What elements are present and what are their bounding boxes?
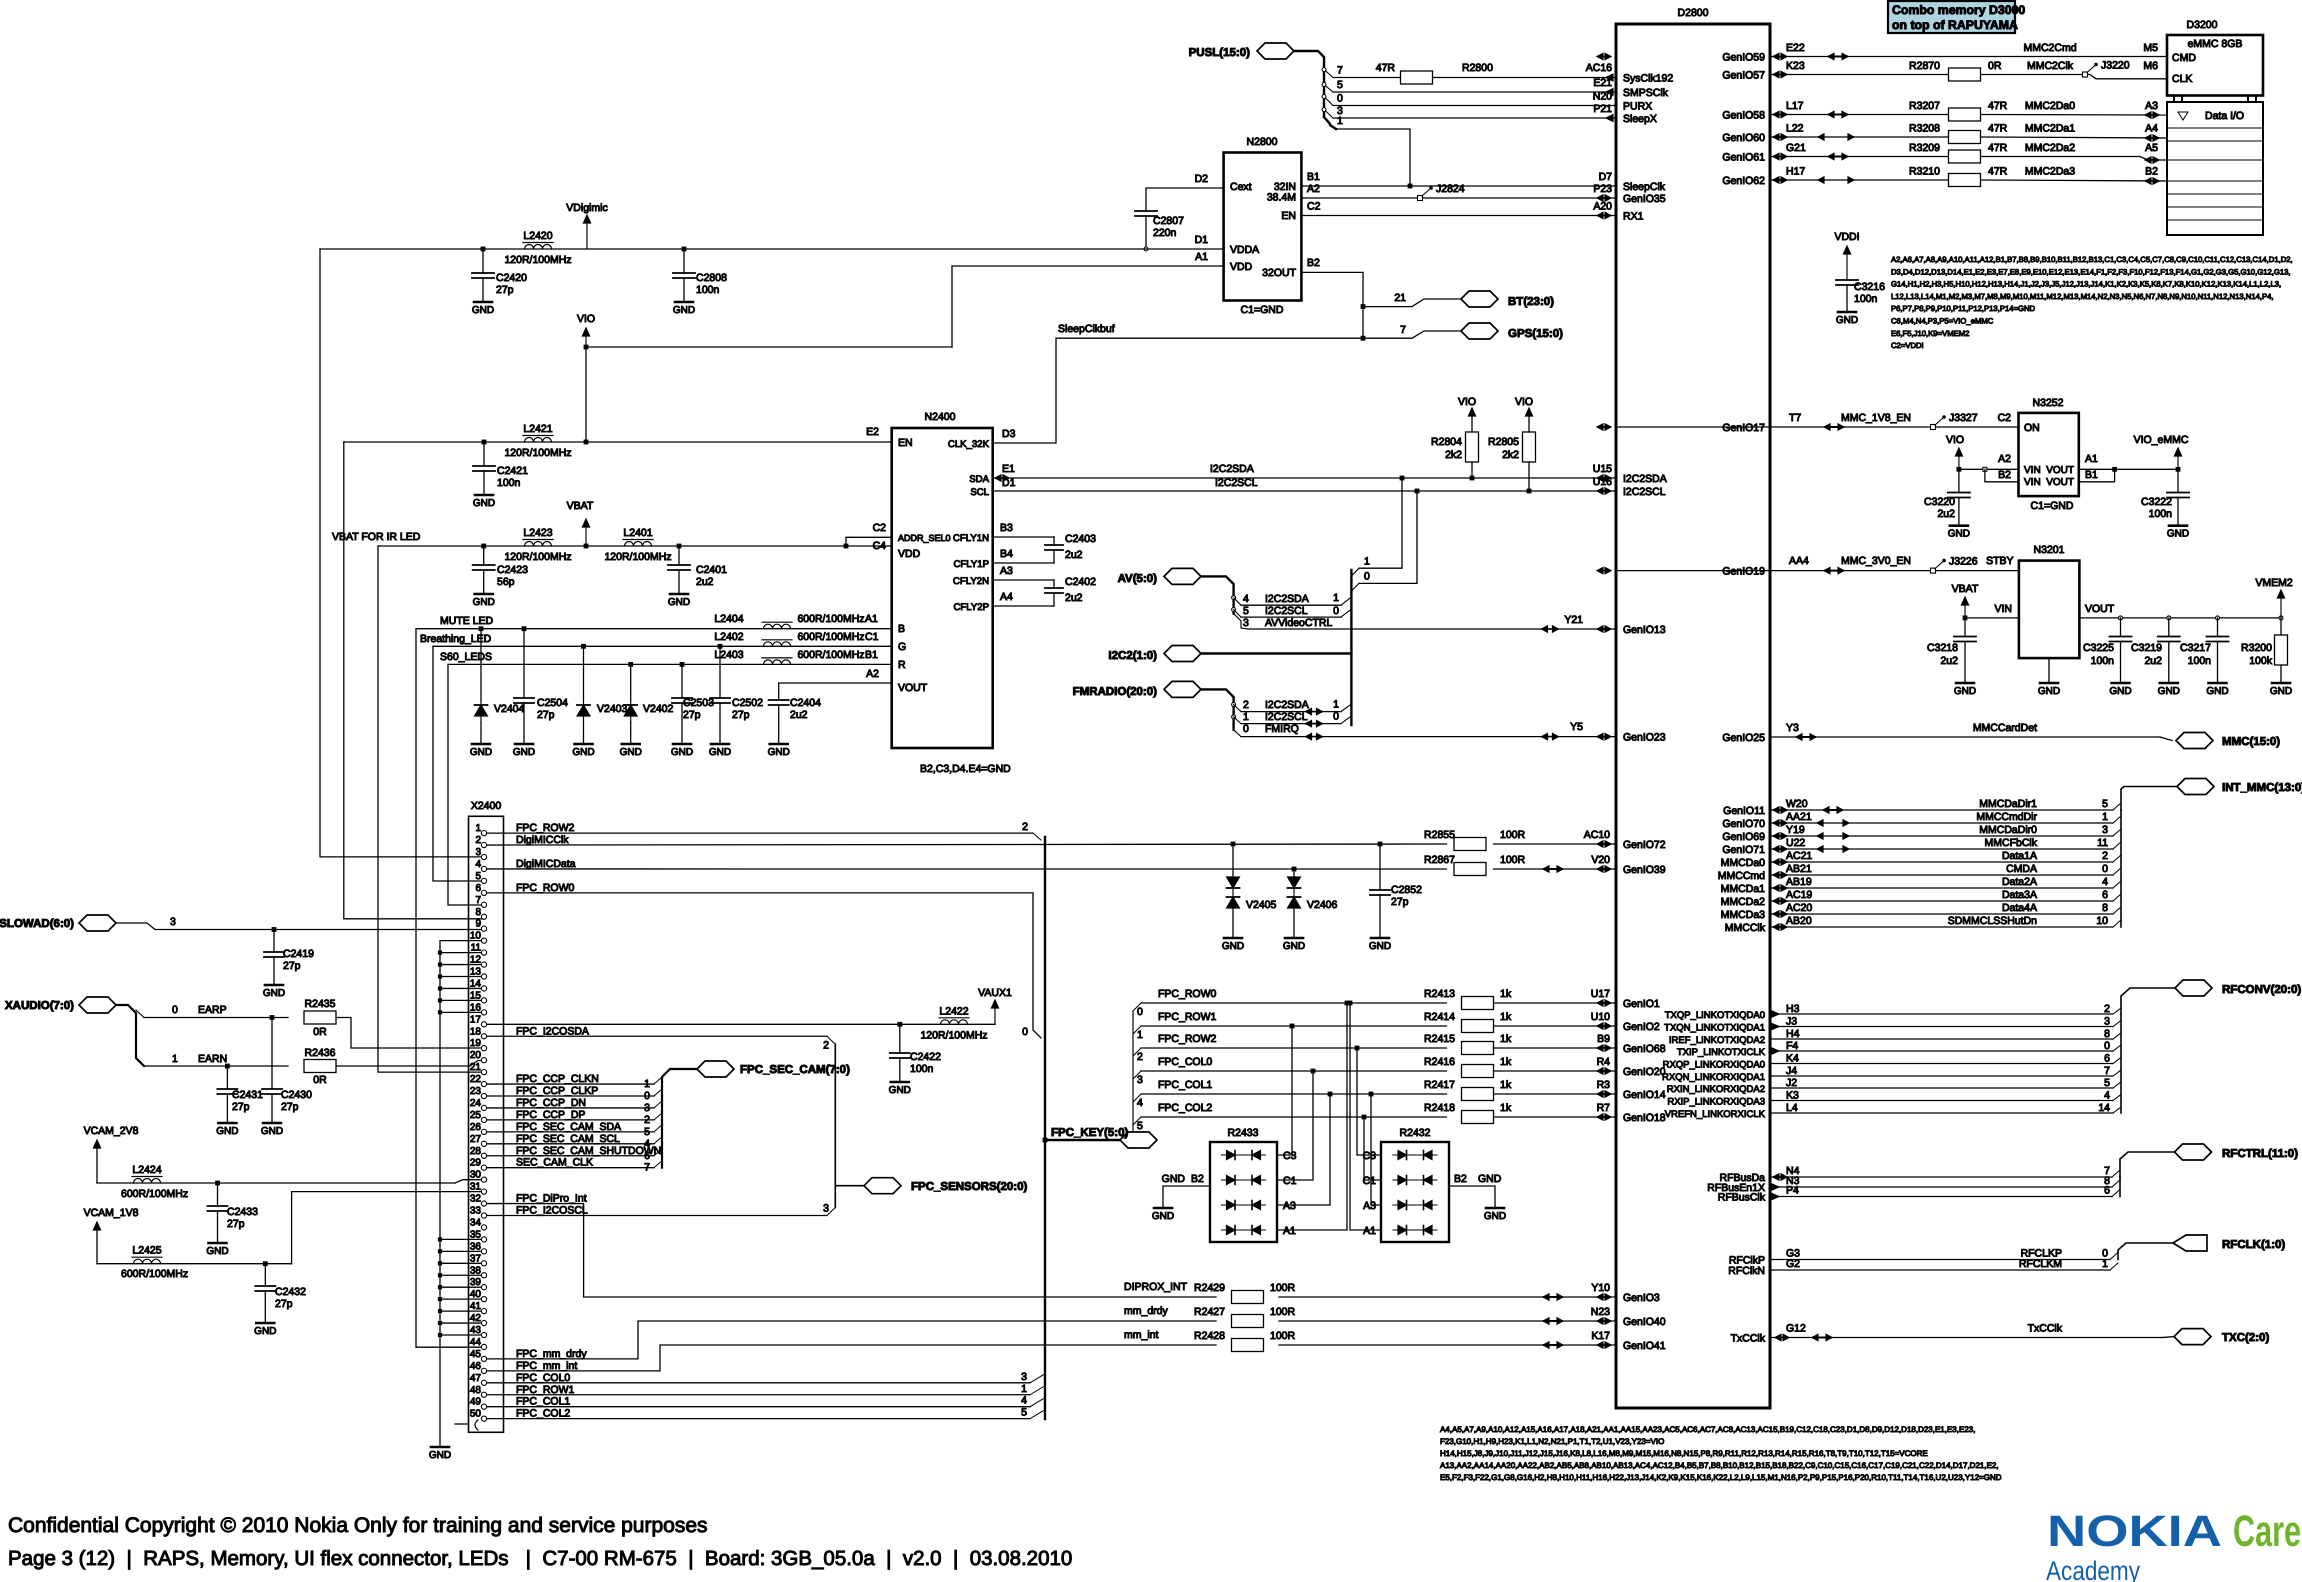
svg-text:D2: D2 [1195,173,1209,185]
svg-text:2: 2 [1022,821,1028,833]
svg-text:B2: B2 [1998,469,2011,481]
wire R2432 A1 to FPC_ROW0 [1350,1003,1381,1230]
svg-text:C3: C3 [1283,1150,1297,1162]
svg-text:GND: GND [768,747,790,758]
wire DigiMICData pin4 row [484,868,1447,870]
svg-text:32OUT: 32OUT [1262,267,1296,279]
svg-text:K17: K17 [1591,1330,1610,1342]
svg-text:VDDI: VDDI [1834,231,1859,243]
svg-text:2u2: 2u2 [1065,549,1083,561]
wire FPC_COL0 to R4 [1133,1071,1141,1079]
IC N3252 regulator [2019,413,2079,496]
svg-text:VIO: VIO [577,313,595,325]
svg-text:GenIO60: GenIO60 [1722,132,1765,144]
svg-text:1k: 1k [1500,1011,1512,1023]
connector X2400 [469,816,504,1432]
svg-text:on top of RAPUYAMA: on top of RAPUYAMA [1892,18,2018,32]
wire R2433 C3 to FPC_ROW1 [1277,1026,1292,1155]
wire I2C2 bus spine [1201,652,1351,654]
svg-text:ADDR_SEL0: ADDR_SEL0 [898,533,951,543]
bus tap AV5 I2C2SCL [1232,608,1236,612]
resistor R3200 100k [2280,618,2282,635]
wire MMC2Clk GenIO57 [1770,74,1948,76]
X2400 pin numbers and labels [470,822,661,1420]
svg-text:120R/100MHz: 120R/100MHz [920,1029,987,1041]
svg-text:MMCCmdDir: MMCCmdDir [1976,811,2037,823]
svg-text:38.4M: 38.4M [1267,192,1296,204]
svg-text:14: 14 [2098,1102,2110,1114]
svg-text:N23: N23 [1591,1306,1610,1318]
svg-text:U10: U10 [1591,1011,1610,1023]
svg-text:MMCDaDir0: MMCDaDir0 [1979,824,2037,836]
bus port INT_MMC(13:0) [2177,779,2214,795]
bus port TXC(2:0) [2174,1329,2211,1345]
svg-text:27p: 27p [283,960,301,972]
IC N2800 (32k clock) [1224,153,1302,301]
svg-text:FMIRQ: FMIRQ [1265,723,1299,735]
wire FPC_SENSORS tail [835,1185,864,1187]
svg-text:MMC2Da3: MMC2Da3 [2025,166,2075,178]
svg-text:MMC_1V8_EN: MMC_1V8_EN [1841,412,1911,424]
svg-text:R2805: R2805 [1488,436,1519,448]
svg-text:R2427: R2427 [1194,1306,1225,1318]
svg-text:Confidential Copyright © 2010: Confidential Copyright © 2010 Nokia Only… [8,1514,708,1537]
svg-text:R3200: R3200 [2241,642,2272,654]
svg-text:3: 3 [1137,1074,1143,1086]
resistor R2804 2k2 [1466,432,1479,462]
ground C3217 [2209,682,2227,685]
svg-text:GND: GND [1369,941,1391,952]
svg-text:FPC_SENSORS(20:0): FPC_SENSORS(20:0) [911,1181,1027,1193]
svg-text:GND: GND [206,1246,228,1257]
svg-text:AB21: AB21 [1786,863,1812,875]
svg-text:C3222: C3222 [2141,496,2172,508]
resistor R3208 47R [1949,131,1981,144]
svg-text:6: 6 [475,883,481,894]
svg-text:E2: E2 [866,426,879,438]
svg-text:5: 5 [1137,1120,1143,1132]
wire CFLY1P B4 [993,562,1054,564]
wire pins 47-50 to FPC_KEY [484,1382,1030,1384]
svg-text:I2C2SCL: I2C2SCL [1265,605,1308,617]
svg-text:GenIO19: GenIO19 [1722,566,1765,578]
svg-text:V2404: V2404 [494,703,525,715]
wire MMC2Cmd GenIO59 [1770,56,2167,58]
svg-text:0: 0 [1022,1026,1028,1038]
svg-text:A4: A4 [2145,123,2158,135]
wire AV bus spine [1201,576,1234,613]
svg-text:GND: GND [470,747,492,758]
diode V2404 [479,626,484,631]
bus port AV(5:0) [1164,568,1201,584]
bus port BT(23:0) [1363,299,1461,307]
svg-text:GenIO23: GenIO23 [1623,732,1666,744]
svg-text:MMCDa0: MMCDa0 [1721,857,1765,869]
svg-text:H3: H3 [1786,1003,1800,1015]
svg-text:E21: E21 [1593,77,1612,89]
wire RFCONV bit 2 pin H3 [1770,1013,2113,1015]
wire VBAT FOR IR LED rail [378,545,892,547]
svg-text:Data2A: Data2A [2002,876,2037,888]
svg-text:C2421: C2421 [497,465,528,477]
svg-text:A13,AA2,AA14,AA20,AA22,AB2,AB5: A13,AA2,AA14,AA20,AA22,AB2,AB5,AB8,AB10,… [1440,1461,1999,1470]
svg-text:J3: J3 [1786,1016,1797,1028]
svg-text:29: 29 [470,1158,482,1169]
svg-text:MMC2Da1: MMC2Da1 [2025,123,2075,135]
svg-text:R2415: R2415 [1424,1033,1455,1045]
svg-text:F23,G10,H1,H9,H23,K1,L1,N2,N21: F23,G10,H1,H9,H23,K1,L1,N2,N21,P1,T1,T2,… [1440,1437,1664,1446]
X2400 shield bracket [455,1423,467,1425]
svg-text:R2435: R2435 [305,998,336,1010]
svg-text:TXC(2:0): TXC(2:0) [2222,1332,2269,1344]
svg-text:U17: U17 [1591,988,1610,1000]
svg-text:G21: G21 [1786,142,1806,154]
svg-text:C3219: C3219 [2131,642,2162,654]
svg-text:PURX: PURX [1623,101,1652,113]
text D2800 pin assignment list [1440,1425,2002,1482]
svg-text:A3: A3 [1363,1200,1376,1212]
svg-text:GenIO70: GenIO70 [1722,818,1765,830]
svg-text:47R: 47R [1376,62,1396,74]
svg-text:AB20: AB20 [1786,915,1812,927]
svg-text:GenIO2: GenIO2 [1623,1021,1660,1033]
svg-text:AC10: AC10 [1584,829,1610,841]
svg-text:A20: A20 [1593,201,1612,213]
svg-text:C2807: C2807 [1153,215,1184,227]
ground C2852 [1371,937,1389,940]
power VIO R2805 [1528,415,1530,432]
svg-text:FPC_COL2: FPC_COL2 [516,1408,570,1420]
svg-text:FPC_COL0: FPC_COL0 [516,1372,570,1384]
wire sec_cam pin24 [484,1107,654,1109]
wire MMCCmdDir AA21 [1770,822,2113,824]
capacitor C2402 2u2 [1053,580,1055,588]
svg-text:D1: D1 [1002,477,1016,489]
svg-text:MMCDaDir1: MMCDaDir1 [1979,798,2037,810]
svg-text:GND: GND [2158,686,2180,697]
svg-text:R2804: R2804 [1431,436,1462,448]
wire MMCFbClk U22 [1770,848,2113,850]
svg-text:5: 5 [1021,1407,1027,1419]
svg-text:R2432: R2432 [1400,1127,1431,1139]
svg-text:4: 4 [1137,1097,1143,1109]
svg-text:DigiMICClk: DigiMICClk [516,834,569,846]
svg-text:1k: 1k [1500,1033,1512,1045]
svg-text:0: 0 [1137,1006,1143,1018]
svg-text:GND: GND [2038,686,2060,697]
svg-text:VIN: VIN [1994,603,2012,615]
svg-text:120R/100MHz: 120R/100MHz [604,551,671,563]
svg-text:GenIO39: GenIO39 [1623,864,1666,876]
power VIO N3252 [1958,455,1960,469]
svg-text:2k2: 2k2 [1502,449,1519,461]
ground C2401 [670,593,688,596]
svg-text:EN: EN [1281,210,1296,222]
svg-text:FPC_CCP_DP: FPC_CCP_DP [516,1109,585,1121]
svg-text:C2403: C2403 [1065,533,1096,545]
svg-text:32: 32 [470,1194,482,1205]
svg-text:1k: 1k [1500,988,1512,1000]
ground X2400 [431,1446,449,1449]
svg-text:1: 1 [2102,1258,2108,1270]
svg-text:D7: D7 [1599,171,1613,183]
svg-text:C2502: C2502 [732,697,763,709]
svg-text:48: 48 [470,1385,482,1396]
inductor L2403 [762,657,792,659]
svg-text:27p: 27p [281,1101,299,1113]
wire CFLY1N B3 [993,536,1054,538]
svg-text:VBAT: VBAT [567,500,594,512]
svg-text:0: 0 [172,1004,178,1016]
svg-text:AV(5:0): AV(5:0) [1118,573,1158,585]
capacitor C2502 27p [718,644,723,649]
svg-text:C2423: C2423 [497,564,528,576]
svg-text:B1: B1 [1307,171,1320,183]
svg-text:RFBusClk: RFBusClk [1718,1192,1766,1204]
ground V2402 [622,743,640,746]
svg-text:3: 3 [170,916,176,928]
svg-text:26: 26 [470,1122,482,1133]
svg-text:2: 2 [823,1039,829,1051]
wire MMCCardDet GenIO25 [1770,736,2160,738]
wire MMC2Da1 L22-A4 [1770,136,1948,138]
svg-text:N20: N20 [1593,91,1612,103]
svg-text:R3208: R3208 [1909,123,1940,135]
IC N2400 (LED driver) [892,428,993,748]
svg-text:V20: V20 [1591,854,1610,866]
svg-text:600R/100MHz: 600R/100MHz [797,631,864,643]
wire RFCONV bit 8 pin H4 [1770,1038,2113,1040]
resistor R2855 100R [1454,838,1486,851]
bus port FPC_SENSORS(20:0) [864,1178,901,1194]
svg-text:Academy: Academy [2046,1556,2140,1582]
svg-text:H4: H4 [1786,1028,1800,1040]
svg-text:C2422: C2422 [910,1051,941,1063]
wire FPC_KEY fan spine [1132,1011,1134,1133]
svg-text:27p: 27p [732,709,750,721]
svg-text:3: 3 [644,1102,650,1114]
wire RFCTRL pin N3 [1770,1186,2112,1188]
svg-text:GenIO20: GenIO20 [1623,1066,1666,1078]
resistor R2429 100R [1232,1291,1264,1304]
bus tap AV4 I2C2SDA [1232,596,1236,600]
svg-text:A3: A3 [1283,1200,1296,1212]
svg-text:GND: GND [254,1326,276,1337]
svg-text:21: 21 [470,1062,482,1073]
svg-text:TXQP_LINKOTXIQDA0: TXQP_LINKOTXIQDA0 [1665,1010,1765,1021]
svg-text:FPC_SEC_CAM_SCL: FPC_SEC_CAM_SCL [516,1133,620,1145]
svg-text:100n: 100n [2149,508,2173,520]
svg-text:VIO: VIO [1458,396,1476,408]
wire FPC_COL1 to R3 [1133,1094,1141,1102]
ground C2420 [474,301,492,304]
svg-text:FPC_ROW2: FPC_ROW2 [1158,1033,1217,1045]
ground R2432 [1486,1207,1504,1210]
svg-text:K4: K4 [1786,1053,1799,1065]
svg-text:C3218: C3218 [1927,642,1958,654]
power VIO mid [585,335,587,347]
svg-text:R3210: R3210 [1909,166,1940,178]
wire CFLY2P A4 [993,605,1054,607]
svg-text:P4: P4 [1786,1185,1799,1197]
svg-text:GND: GND [473,597,495,608]
wire FPC_I2COSCL pin33 [484,1215,827,1217]
svg-text:VDD: VDD [1230,261,1253,273]
svg-text:FPC_COL2: FPC_COL2 [1158,1102,1212,1114]
svg-text:FPC_CCP_DN: FPC_CCP_DN [516,1097,586,1109]
svg-text:GenIO3: GenIO3 [1623,1292,1660,1304]
svg-text:RXQN_LINKORXIQDA1: RXQN_LINKORXIQDA1 [1662,1072,1765,1083]
ground C2419 [265,984,283,987]
svg-text:N3201: N3201 [2034,544,2065,556]
svg-text:100n: 100n [2091,655,2115,667]
wire MMC_1V8_EN GenIO17 [1616,426,2019,428]
svg-text:8: 8 [2102,902,2108,914]
wire RFCONV bit 3 pin J3 [1770,1026,2113,1028]
capacitor C2430 27p [270,1015,275,1020]
svg-text:J3327: J3327 [1949,412,1978,424]
capacitor C2433 27p [215,1181,220,1186]
wire VBAT IR rail to X2400 pin21 [378,546,484,1072]
inductor L2420 [523,242,553,244]
ground C3219 [2160,682,2178,685]
svg-text:A3: A3 [1000,565,1013,577]
svg-text:VIO_eMMC: VIO_eMMC [2134,434,2189,446]
svg-text:VMEM2: VMEM2 [2255,577,2293,589]
svg-text:E6,F5,J10,K9=VMEM2: E6,F5,J10,K9=VMEM2 [1891,329,1969,338]
svg-text:VIO: VIO [1946,434,1964,446]
wire R2432 C3 to FPC_ROW2 [1357,1048,1381,1155]
svg-text:AVVideoCTRL: AVVideoCTRL [1265,617,1332,629]
svg-text:TxCClk: TxCClk [2028,1323,2063,1335]
bus port RFCLK(1:0) [2173,1235,2207,1251]
svg-text:TXQN_LINKOTXIQDA1: TXQN_LINKOTXIQDA1 [1664,1023,1765,1034]
resistor R2416 1k [1462,1065,1494,1078]
svg-text:1: 1 [1364,556,1370,568]
wire RFCLKP [1770,1259,2110,1261]
resistor R2870 0R [1949,68,1981,81]
D2800 left pin labels [1623,73,1673,1353]
wire MMC2Da3 H17-B2 [1770,179,1948,181]
svg-text:Data1A: Data1A [2002,850,2037,862]
svg-text:MMC2Da2: MMC2Da2 [2025,142,2075,154]
ground C2502 [711,743,729,746]
capacitor C2423 56p [481,544,486,549]
note Combo memory D3000 on top of RAPUYAMA [1888,1,2015,33]
svg-text:1: 1 [1333,592,1339,604]
svg-text:120R/100MHz: 120R/100MHz [504,254,571,266]
svg-text:INT_MMC(13:0): INT_MMC(13:0) [2222,782,2302,794]
svg-text:3: 3 [2102,824,2108,836]
resistor R2418 1k [1462,1111,1494,1124]
svg-text:D3,D4,D12,D13,D14,E1,E2,E3,E7,: D3,D4,D12,D13,D14,E1,E2,E3,E7,E8,E9,E10,… [1891,267,2291,276]
svg-text:R2413: R2413 [1424,988,1455,1000]
wire R2433 A1 to FPC_ROW0 [1277,1003,1347,1230]
wire MMC2Da2 G21-A5 [1770,156,1948,158]
IC N3201 regulator [2019,561,2079,659]
svg-text:I2C2SCL: I2C2SCL [1215,477,1258,489]
ground C3225 [2112,682,2130,685]
bus port RFCTRL(11:0) [2175,1144,2212,1160]
svg-text:CLK_32K: CLK_32K [948,439,990,450]
wire pin17 VAUX1 rail [484,1023,995,1025]
svg-text:L2403: L2403 [714,649,743,661]
wire R2432 B2 GND [1449,1186,1495,1208]
svg-text:GenIO57: GenIO57 [1722,70,1765,82]
ground V2404 [472,743,490,746]
svg-text:I2C2SDA: I2C2SDA [1210,463,1254,475]
bus port MMC(15:0) [2176,733,2213,749]
svg-text:FPC_COL1: FPC_COL1 [516,1396,570,1408]
wire R2432 A3 to FPC_COL1 [1371,1094,1381,1205]
svg-text:L4: L4 [1786,1102,1798,1114]
svg-text:eMMC 8GB: eMMC 8GB [2188,38,2243,50]
svg-text:RFClkN: RFClkN [1728,1265,1765,1277]
svg-text:27p: 27p [275,1298,293,1310]
svg-text:GND: GND [620,747,642,758]
inductor L2424 [132,1176,162,1178]
svg-text:GenIO35: GenIO35 [1623,193,1666,205]
svg-text:K3: K3 [1786,1090,1799,1102]
svg-text:I2C2SDA: I2C2SDA [1623,473,1667,485]
svg-text:C1: C1 [1283,1175,1297,1187]
svg-text:W20: W20 [1786,798,1808,810]
wire VIN A2/B2 [1959,468,2019,470]
suppressor V2406 [1292,867,1297,872]
wire FPC_COL2 to R7 [1133,1117,1141,1125]
svg-text:A2,A6,A7,A8,A9,A10,A11,A12,B1,: A2,A6,A7,A8,A9,A10,A11,A12,B1,B7,B8,B9,B… [1891,255,2293,264]
svg-text:CLK: CLK [2172,73,2192,85]
resistor R2436 0R [304,1060,336,1073]
wire RX1 EN [1301,215,1616,217]
svg-text:FPC_ROW1: FPC_ROW1 [516,1384,575,1396]
svg-text:FPC_CCP_CLKP: FPC_CCP_CLKP [516,1085,598,1097]
svg-text:VIN: VIN [2024,465,2041,476]
svg-text:FPC_COL1: FPC_COL1 [1158,1079,1212,1091]
svg-text:47: 47 [470,1373,482,1384]
wire FPC_mm_int pin46 mm_int [484,1345,1216,1371]
wire VIN N3201 [1965,617,2019,619]
wire VOUT A2 [779,683,892,700]
svg-text:H14,H15,J8,J9,J10,J11,J12,J15,: H14,H15,J8,J9,J10,J11,J12,J15,J16,K8,L8,… [1440,1449,1928,1458]
svg-text:VOUT: VOUT [2085,603,2115,615]
svg-text:Y19: Y19 [1786,824,1805,836]
svg-text:33: 33 [470,1206,482,1217]
svg-text:CFLY1N: CFLY1N [953,533,989,544]
svg-text:VBAT FOR IR LED: VBAT FOR IR LED [332,531,421,543]
svg-text:FPC_mm_int: FPC_mm_int [516,1360,577,1372]
resistor R2427 100R [1232,1315,1264,1328]
svg-text:GND: GND [572,747,594,758]
svg-text:GenIO68: GenIO68 [1623,1043,1666,1055]
svg-text:GenIO72: GenIO72 [1623,839,1666,851]
svg-text:J4: J4 [1786,1065,1797,1077]
svg-text:GND: GND [473,498,495,509]
svg-text:CMDA: CMDA [2006,863,2037,875]
svg-text:A1: A1 [2085,453,2098,465]
svg-text:VAUX1: VAUX1 [978,987,1012,999]
svg-text:TXIP_LINKOTXICLK: TXIP_LINKOTXICLK [1677,1047,1766,1058]
svg-text:XAUDIO(7:0): XAUDIO(7:0) [5,1000,74,1012]
svg-text:27p: 27p [683,709,701,721]
wire RFCLK spine [2118,1243,2173,1260]
capacitor C3225 100n [2120,618,2122,637]
wire FPC_ROW0 pin6 to FPC_KEY [484,893,1041,1038]
power VIO R2804 [1471,415,1473,432]
svg-text:5: 5 [2104,1077,2110,1089]
wire sec_cam pin25 [484,1119,654,1121]
svg-text:0: 0 [1333,605,1339,617]
